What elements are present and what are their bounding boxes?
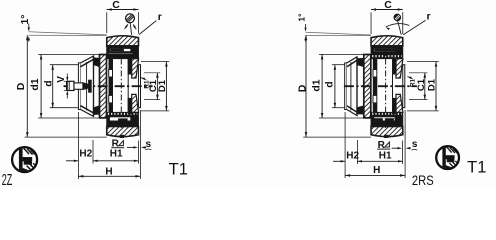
svg-text:H: H <box>105 166 112 177</box>
svg-text:d: d <box>42 80 54 86</box>
svg-text:r: r <box>427 11 431 23</box>
svg-text:d: d <box>323 81 335 87</box>
svg-text:2RS: 2RS <box>412 173 434 187</box>
svg-text:r: r <box>158 11 162 23</box>
svg-text:H2: H2 <box>79 149 92 160</box>
svg-text:d1: d1 <box>29 78 41 90</box>
svg-text:H1: H1 <box>379 151 392 162</box>
svg-text:D: D <box>15 82 27 90</box>
svg-text:H2: H2 <box>346 151 359 162</box>
svg-text:T1: T1 <box>169 160 188 178</box>
svg-text:1°: 1° <box>296 13 306 22</box>
svg-text:2Z: 2Z <box>2 172 13 187</box>
svg-text:T1: T1 <box>467 158 486 176</box>
svg-text:V: V <box>56 76 67 83</box>
svg-text:s: s <box>146 139 152 150</box>
svg-text:d1: d1 <box>311 79 323 91</box>
svg-text:C: C <box>384 0 392 11</box>
svg-text:s: s <box>412 139 418 150</box>
svg-text:D: D <box>296 84 308 92</box>
svg-text:C: C <box>112 0 120 11</box>
svg-text:1°: 1° <box>19 14 31 24</box>
svg-text:H1: H1 <box>110 149 123 160</box>
svg-text:H: H <box>373 165 380 176</box>
